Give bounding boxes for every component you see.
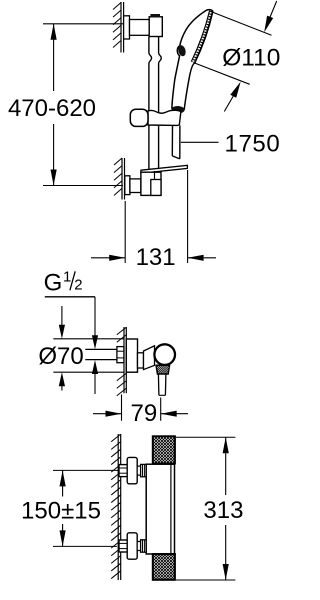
svg-text:470-620: 470-620 [8,95,96,122]
svg-text:150±15: 150±15 [21,498,101,525]
svg-text:131: 131 [136,244,176,271]
svg-text:G: G [44,270,63,297]
svg-text:313: 313 [203,497,243,524]
svg-text:1: 1 [63,269,71,286]
svg-text:Ø70: Ø70 [38,343,83,370]
svg-text:79: 79 [131,400,158,427]
svg-text:Ø110: Ø110 [222,45,280,72]
svg-text:1750: 1750 [225,131,281,158]
svg-text:2: 2 [74,277,82,294]
